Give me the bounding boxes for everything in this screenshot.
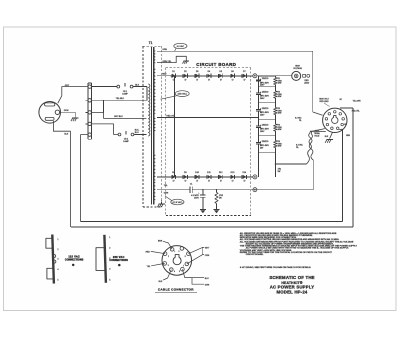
- svg-text:57: 57: [208, 181, 210, 183]
- svg-text:HIGH: HIGH: [295, 65, 300, 67]
- svg-text:1: 1: [174, 251, 175, 253]
- svg-text:CABLE CONNECTOR: CABLE CONNECTOR: [158, 287, 194, 291]
- svg-text:57: 57: [244, 181, 246, 183]
- svg-text:10W: 10W: [278, 146, 282, 148]
- svg-text:10W: 10W: [278, 113, 282, 115]
- svg-text:4: 4: [174, 271, 175, 273]
- svg-text:MODEL HP-24: MODEL HP-24: [276, 290, 307, 295]
- svg-text:GRY: GRY: [65, 85, 70, 87]
- svg-text:6.3 VAC: 6.3 VAC: [296, 144, 304, 147]
- svg-text:HOLE: HOLE: [314, 135, 320, 137]
- svg-text:2W: 2W: [219, 198, 222, 200]
- svg-text:125/220: 125/220: [262, 108, 269, 110]
- svg-text:(12.6 VAC): (12.6 VAC): [173, 201, 183, 204]
- svg-text:FIL: FIL: [296, 147, 299, 149]
- svg-text:GRN: GRN: [164, 193, 169, 195]
- svg-text:VOLTAGE: VOLTAGE: [293, 67, 302, 70]
- svg-text:57: 57: [196, 181, 198, 183]
- svg-text:125/220: 125/220: [262, 124, 269, 126]
- svg-text:230 VAC: 230 VAC: [113, 255, 125, 259]
- svg-text:125/220: 125/220: [262, 141, 269, 143]
- svg-text:3 AMP: 3 AMP: [122, 93, 128, 96]
- svg-text:10W: 10W: [278, 96, 282, 98]
- svg-text:RED: RED: [162, 74, 167, 76]
- svg-text:57: 57: [220, 181, 222, 183]
- svg-text:CIRCUIT BOARD.: CIRCUIT BOARD.: [246, 253, 264, 256]
- svg-text:5: 5: [179, 271, 180, 273]
- svg-text:57: 57: [244, 80, 246, 82]
- svg-text:57: 57: [173, 181, 175, 183]
- svg-text:RED: RED: [146, 251, 151, 253]
- svg-text:YEL-BLK: YEL-BLK: [116, 98, 125, 100]
- svg-text:WHT: WHT: [205, 248, 210, 250]
- svg-text:SCHEMATIC OF THE: SCHEMATIC OF THE: [269, 275, 314, 280]
- svg-text:8: 8: [185, 256, 186, 258]
- svg-text:5W: 5W: [278, 171, 281, 173]
- svg-text:RED LEAD: RED LEAD: [320, 100, 330, 103]
- svg-text:CONNECTIONS: CONNECTIONS: [65, 260, 84, 262]
- svg-text:(350 VAC): (350 VAC): [178, 93, 188, 96]
- svg-text:57: 57: [220, 80, 222, 82]
- svg-text:350V: 350V: [194, 198, 199, 200]
- svg-text:RED-YEL: RED-YEL: [352, 111, 360, 113]
- svg-text:10W: 10W: [278, 83, 282, 85]
- svg-text:57: 57: [208, 80, 210, 82]
- svg-text:FIL: FIL: [299, 120, 302, 122]
- svg-text:GRY-BLK: GRY-BLK: [114, 116, 123, 118]
- svg-text:✳ AT 120VAC, SEE FIRST WIRE CO: ✳ AT 120VAC, SEE FIRST WIRE COLUMN ON PA…: [240, 266, 312, 269]
- svg-text:CONNECTIONS: CONNECTIONS: [109, 260, 128, 262]
- svg-text:125/220: 125/220: [262, 91, 269, 93]
- svg-text:BLU: BLU: [135, 132, 139, 134]
- svg-text:6.3 VAC: 6.3 VAC: [177, 45, 185, 48]
- svg-text:57: 57: [232, 80, 234, 82]
- svg-text:BLK: BLK: [64, 134, 69, 136]
- svg-text:9: 9: [179, 251, 180, 253]
- svg-text:GRN: GRN: [205, 284, 210, 286]
- svg-text:GRN: GRN: [64, 110, 69, 112]
- svg-text:3: 3: [168, 265, 169, 267]
- svg-text:57: 57: [185, 80, 187, 82]
- svg-text:BLK: BLK: [135, 84, 140, 86]
- svg-text:7: 7: [183, 266, 184, 268]
- svg-text:GRN-YEL: GRN-YEL: [162, 61, 172, 63]
- svg-text:10W: 10W: [278, 129, 282, 131]
- svg-text:YEL-GRN: YEL-GRN: [353, 100, 362, 102]
- svg-text:6.3 VAC: 6.3 VAC: [295, 117, 302, 120]
- svg-text:57: 57: [232, 181, 234, 183]
- svg-text:3 AMP: 3 AMP: [123, 140, 129, 143]
- svg-text:T1: T1: [149, 41, 153, 45]
- svg-text:CIRCUIT BOARD: CIRCUIT BOARD: [196, 62, 236, 67]
- svg-text:ORN: ORN: [205, 255, 210, 257]
- svg-text:2: 2: [168, 256, 169, 258]
- svg-text:BLK: BLK: [159, 281, 163, 283]
- svg-text:GRN: GRN: [162, 49, 167, 51]
- svg-text:115 VAC: 115 VAC: [68, 255, 80, 259]
- svg-text:57: 57: [185, 181, 187, 183]
- svg-text:BRN: BRN: [158, 241, 163, 243]
- svg-text:125/220: 125/220: [262, 78, 269, 80]
- svg-text:LEAD: LEAD: [304, 82, 310, 85]
- svg-text:57: 57: [196, 80, 198, 82]
- svg-text:BLU: BLU: [205, 278, 209, 280]
